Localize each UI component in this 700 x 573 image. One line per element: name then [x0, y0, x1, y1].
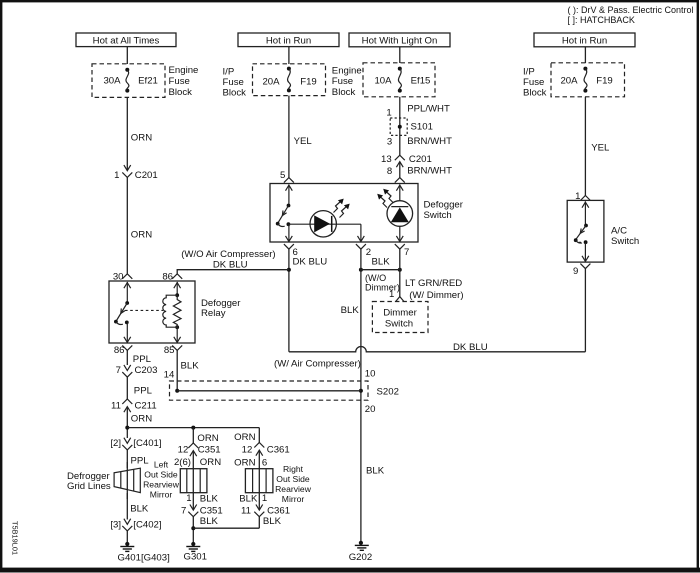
wire: header to fuse F19 — [288, 47, 290, 64]
svg-text:ORN: ORN — [234, 457, 255, 468]
dimmer switch box — [372, 302, 428, 333]
svg-text:1: 1 — [114, 170, 119, 181]
label: LT GRN/RED (W/ Dimmer) — [405, 278, 464, 301]
fuse F19 20A in I/P Fuse Block (right) — [551, 63, 625, 97]
connector C201 pin 13 — [381, 154, 432, 167]
relay coil (inductor + resistor parallel) — [163, 282, 181, 343]
A/C switch pin 1 entry — [580, 196, 590, 201]
svg-text:30A: 30A — [103, 76, 121, 87]
svg-text:( ): DrV & Pass. Electric Cont: ( ): DrV & Pass. Electric Control — [568, 5, 694, 15]
svg-text:14: 14 — [164, 370, 175, 381]
left out side rearview mirror heater — [180, 469, 207, 493]
wire: C351 to ground junction, BLK — [193, 516, 218, 544]
wire: header to fuse Ef15 — [399, 47, 401, 63]
wire: C203 to C211, PPL — [127, 377, 152, 399]
label: (W/O Air Compresser) DK BLU — [181, 249, 275, 271]
splice S202 — [170, 368, 399, 415]
node: pin 6 / relay 86 branch — [287, 268, 291, 272]
wire: header to fuse F19 (right) — [584, 47, 586, 63]
svg-text:[C402]: [C402] — [133, 519, 161, 530]
svg-text:C211: C211 — [135, 401, 157, 412]
svg-text:C201: C201 — [409, 154, 432, 165]
svg-text:F19: F19 — [300, 77, 317, 88]
wire: C211 down to C401, ORN — [127, 407, 152, 438]
svg-text:8: 8 — [387, 166, 392, 177]
svg-text:5: 5 — [280, 170, 285, 181]
svg-text:C201: C201 — [135, 170, 158, 181]
connector C401 pin 2 — [110, 438, 161, 450]
svg-text:F19: F19 — [596, 76, 613, 87]
wire: fuse to C201, ORN — [127, 97, 152, 170]
svg-text:(W/O Air Compresser): (W/O Air Compresser) — [181, 249, 275, 260]
svg-text:[ ]: HATCHBACK: [ ]: HATCHBACK — [568, 15, 635, 25]
svg-text:Hot With Light On: Hot With Light On — [362, 36, 438, 47]
svg-text:11: 11 — [241, 505, 251, 516]
svg-text:2: 2 — [366, 247, 371, 258]
svg-text:7: 7 — [404, 247, 409, 258]
ground G202 — [349, 541, 372, 563]
relay pin 85 exit — [164, 345, 182, 356]
svg-text:2(6): 2(6) — [174, 457, 191, 468]
power feed header: Hot in Run (I/P) — [238, 33, 339, 47]
wire: C351 to left mirror, ORN pin 2(6) — [174, 451, 221, 469]
svg-text:BLK: BLK — [130, 503, 149, 514]
svg-text:BLK: BLK — [200, 494, 219, 505]
svg-text:BLK: BLK — [263, 516, 282, 527]
left mirror drop wire, ORN — [191, 426, 218, 445]
connector C361 pin 11 — [241, 505, 290, 517]
svg-text:Hot in Run: Hot in Run — [562, 36, 607, 47]
svg-text:9: 9 — [573, 266, 578, 277]
wire: DK BLU run to A/C switch with hop over BLK — [289, 347, 586, 352]
svg-text:BLK: BLK — [372, 256, 391, 267]
junction node G301 tie — [191, 526, 195, 530]
legend note — [568, 5, 694, 25]
power feed header: Hot at All Times — [76, 33, 176, 47]
svg-text:10A: 10A — [374, 76, 392, 87]
defogger grid lines element — [114, 462, 140, 499]
relay actuate dashed link — [125, 309, 163, 311]
wire: defogger pin 2 to ground run, BLK — [341, 249, 361, 543]
svg-text:7: 7 — [116, 365, 121, 376]
relay switch contact (pin 30 to 86) — [114, 282, 131, 343]
connector C203 pin 7 — [116, 365, 158, 377]
A/C switch box — [567, 200, 639, 262]
svg-text:ORN: ORN — [131, 414, 152, 425]
defogger switch box — [270, 184, 464, 243]
relay pin 86 (coil) entry — [162, 272, 182, 283]
svg-text:C351: C351 — [198, 445, 221, 456]
svg-text:6: 6 — [262, 457, 267, 468]
wire: C361 to right mirror, ORN pin 6 — [234, 450, 267, 469]
svg-text:S101: S101 — [411, 121, 433, 132]
defogger switch pin 2 exit — [356, 244, 371, 258]
svg-text:DK BLU: DK BLU — [453, 342, 488, 353]
svg-text:Hot at All Times: Hot at All Times — [93, 35, 160, 46]
wire: fuse to A/C switch pin 1, YEL — [575, 97, 610, 202]
connector C351 pin 12 — [178, 443, 221, 456]
label: (W/O Dimmer) pin 1 — [365, 273, 400, 300]
defogger switch contact — [276, 185, 292, 227]
wire: C402 to ground — [126, 531, 128, 544]
svg-text:BLK: BLK — [366, 466, 385, 477]
svg-text:1: 1 — [186, 493, 191, 504]
svg-text:BRN/WHT: BRN/WHT — [407, 136, 452, 147]
svg-text:YEL: YEL — [294, 136, 313, 147]
node: pin 2 / pin 7 tie, BLK — [359, 256, 402, 271]
svg-text:PPL: PPL — [133, 354, 152, 365]
svg-text:86: 86 — [114, 345, 125, 356]
power feed header: Hot in Run (right) — [534, 33, 635, 47]
wire: mirror pin 1 to C351, BLK — [186, 493, 218, 510]
connector C402 pin 3 — [110, 519, 161, 531]
defogger switch pin 6 exit — [284, 244, 298, 258]
wire: fuse to defogger switch pin 5, YEL — [280, 96, 312, 181]
svg-text:[3]: [3] — [110, 519, 121, 530]
svg-text:3: 3 — [387, 137, 392, 148]
connector C211 pin 11 — [111, 399, 157, 412]
svg-text:Ef15: Ef15 — [411, 76, 431, 87]
svg-text:DefroggerGrid Lines: DefroggerGrid Lines — [67, 471, 111, 492]
svg-text:20A: 20A — [560, 76, 578, 87]
svg-text:Dimmer): Dimmer) — [365, 283, 400, 293]
svg-text:20A: 20A — [262, 77, 280, 88]
svg-text:T5B19L01: T5B19L01 — [11, 521, 20, 555]
svg-text:10: 10 — [365, 368, 376, 379]
svg-text:DK BLU: DK BLU — [293, 256, 328, 267]
connector C201 pin 1 — [114, 165, 158, 181]
wire: C201 to relay pin 30, ORN — [127, 177, 152, 273]
svg-text:BRN/WHT: BRN/WHT — [407, 165, 452, 176]
svg-text:20: 20 — [365, 404, 376, 415]
defogger switch pin 5 entry — [284, 178, 294, 183]
wire: defogger pin 6 drop, DK BLU — [289, 249, 327, 352]
svg-text:[C401]: [C401] — [133, 438, 161, 449]
svg-text:(W/ Air Compresser): (W/ Air Compresser) — [274, 359, 361, 370]
svg-text:BLK: BLK — [341, 305, 360, 316]
wire: mirror pin 1 to C361, BLK — [239, 493, 267, 510]
wire: right mirror return — [193, 527, 259, 529]
connector C351 pin 7 — [181, 505, 223, 517]
ground G301 — [184, 542, 207, 563]
svg-text:12: 12 — [242, 444, 253, 455]
svg-text:ORN: ORN — [131, 230, 152, 241]
svg-text:LT GRN/RED: LT GRN/RED — [405, 278, 462, 289]
svg-text:1: 1 — [262, 493, 267, 504]
wire label: pin 3 BRN/WHT — [387, 136, 452, 148]
wire: C361 to ground junction, BLK — [259, 516, 281, 528]
svg-text:Ef21: Ef21 — [138, 76, 158, 87]
svg-text:C351: C351 — [200, 505, 223, 516]
svg-text:[2]: [2] — [110, 438, 121, 449]
dimmer switch pin 1 entry — [396, 297, 404, 302]
svg-text:PPL: PPL — [131, 455, 150, 466]
svg-text:Dimmer: Dimmer — [383, 308, 417, 319]
svg-text:PPL/WHT: PPL/WHT — [407, 103, 450, 114]
svg-text:Hot in Run: Hot in Run — [266, 35, 311, 46]
wire: C401 to grid, PPL — [127, 450, 149, 468]
defogger switch pin 8 entry — [395, 178, 405, 183]
wire: mirror branch horizontal — [127, 427, 259, 429]
wire: header to fuse Ef21 — [126, 47, 128, 64]
power feed header: Hot With Light On — [349, 33, 450, 47]
svg-text:G301: G301 — [184, 552, 207, 563]
svg-text:DK BLU: DK BLU — [213, 259, 248, 270]
relay pin 30 entry — [113, 272, 132, 283]
junction node to mirror branch — [125, 426, 129, 430]
defogger switch illumination lamp (pin 8) — [377, 185, 412, 242]
svg-text:ORN: ORN — [234, 432, 255, 443]
svg-text:YEL: YEL — [591, 142, 610, 153]
relay pin 86 (bottom) exit — [114, 345, 132, 356]
wire: relay pin 85 to S202, BLK pin 14 — [164, 350, 200, 390]
svg-text:BLK: BLK — [181, 360, 200, 371]
svg-text:C361: C361 — [267, 444, 290, 455]
svg-text:13: 13 — [381, 154, 392, 165]
right mirror drop wire, ORN — [234, 428, 259, 443]
svg-text:PPL: PPL — [134, 385, 153, 396]
fuse Ef15 10A in Engine Fuse Block — [363, 63, 435, 97]
svg-text:BLK: BLK — [200, 516, 219, 527]
splice S101 — [390, 118, 433, 135]
svg-text:12: 12 — [178, 445, 189, 456]
wire: grid to C402, BLK — [127, 493, 149, 520]
wire: pin 7 to dimmer switch — [399, 249, 401, 296]
svg-text:G202: G202 — [349, 552, 372, 563]
LED indicator lamp — [310, 199, 350, 237]
svg-text:1: 1 — [386, 108, 391, 119]
defogger relay box — [109, 281, 241, 343]
svg-text:ORN: ORN — [200, 457, 221, 468]
right out side rearview mirror heater — [245, 469, 273, 493]
wire: branch to relay coil pin 86 — [177, 270, 289, 274]
svg-text:C361: C361 — [267, 505, 290, 516]
svg-text:1: 1 — [389, 289, 394, 300]
wire: fuse to S101, pin 1 PPL/WHT — [386, 97, 450, 156]
svg-text:(W/ Dimmer): (W/ Dimmer) — [409, 290, 463, 301]
connector C361 pin 12 — [242, 443, 290, 456]
svg-text:S202: S202 — [377, 386, 399, 397]
ground G401[G403] — [118, 542, 170, 564]
wire: C201 to switch pin 8, BRN/WHT — [387, 162, 452, 178]
svg-text:BLK: BLK — [239, 494, 258, 505]
wire: A/C pin 9 down to DK BLU run — [584, 269, 586, 352]
defogger switch pin 7 exit — [395, 244, 410, 258]
A/C switch contact — [574, 201, 589, 261]
svg-text:G401[G403]: G401[G403] — [118, 552, 170, 563]
wire: relay 86 to C203, PPL — [127, 350, 151, 365]
svg-text:ORN: ORN — [131, 133, 152, 144]
fuse F19 20A in I/P Fuse Block — [253, 64, 326, 96]
A/C switch pin 9 exit — [573, 264, 590, 278]
svg-text:85: 85 — [164, 345, 175, 356]
svg-text:Switch: Switch — [385, 319, 413, 330]
svg-text:ORN: ORN — [197, 433, 218, 444]
fuse Ef21 30A in Engine Fuse Block — [92, 64, 165, 98]
svg-text:11: 11 — [111, 401, 121, 412]
wire: switch to LED to pin 2 drop — [286, 224, 365, 241]
svg-text:7: 7 — [181, 505, 186, 516]
svg-text:C203: C203 — [135, 365, 158, 376]
